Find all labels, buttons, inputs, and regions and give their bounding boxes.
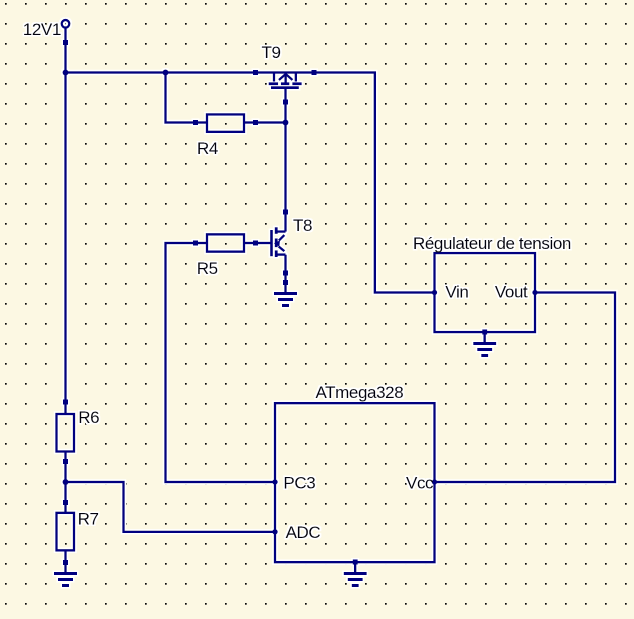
- pin dot Vout: [532, 290, 537, 295]
- transistor T9 bulk contact bar: [281, 82, 290, 85]
- wire ATmega ground stub: [354, 562, 356, 572]
- wire 12V vertical rail: [64, 43, 66, 415]
- transistor T9 bulk arrow: [284, 75, 286, 84]
- pad T8 ground: [283, 280, 288, 285]
- transistor T9 drain stub: [295, 72, 297, 82]
- resistor R7: [57, 513, 75, 551]
- svg-text:PC3: PC3: [283, 474, 315, 493]
- box ATmega328: [275, 403, 435, 562]
- pad T9 source: [253, 70, 258, 75]
- wire regulator ground stub: [483, 331, 485, 342]
- pin dot Vin: [432, 290, 437, 295]
- transistor T9 source stub: [273, 72, 275, 82]
- svg-text:T8: T8: [293, 216, 312, 235]
- pin dot ADC: [272, 529, 277, 534]
- pad T8 source: [283, 271, 288, 276]
- wire regulator Vout to ATmega Vcc: [435, 293, 616, 483]
- transistor T9 gate bar: [271, 86, 299, 89]
- wire divider tap to ATmega ADC: [66, 482, 276, 532]
- wire top 12V rail: [66, 71, 315, 73]
- junction top rail / R4: [163, 70, 169, 76]
- pad T9 drain: [312, 70, 317, 75]
- wire R4 right to gate node: [244, 121, 286, 123]
- transistor T8 bulk arrow: [279, 235, 285, 251]
- svg-text:Vcc: Vcc: [406, 474, 434, 493]
- svg-text:Vin: Vin: [445, 283, 468, 302]
- pad T9 gate: [283, 100, 288, 105]
- svg-text:R7: R7: [78, 509, 99, 528]
- wire R7 to ground: [64, 550, 66, 572]
- svg-text:R4: R4: [197, 139, 218, 158]
- pad regulator ground: [482, 330, 487, 335]
- junction R6/R7 divider tap: [63, 479, 69, 485]
- wire T9 drain to regulator Vin: [314, 73, 435, 293]
- ground under T8: [274, 292, 297, 295]
- pad R7 top: [63, 500, 68, 505]
- transistor T8 source link and pin to ground: [276, 255, 285, 293]
- transistor T8 channel bottom segment: [275, 250, 278, 257]
- transistor T9 source contact bar: [269, 82, 279, 85]
- transistor T8 gate bar: [270, 230, 273, 256]
- svg-text:R6: R6: [78, 408, 99, 427]
- wire T9 gate to T8 drain: [284, 88, 286, 232]
- transistor T8 channel top segment: [275, 227, 278, 234]
- svg-text:12V1: 12V1: [23, 20, 61, 39]
- svg-text:T9: T9: [262, 43, 281, 62]
- pad ATmega ground: [353, 560, 358, 565]
- pad R6 bottom: [63, 459, 68, 464]
- svg-text:Régulateur de tension: Régulateur de tension: [413, 234, 571, 253]
- pad T8 drain: [283, 210, 288, 215]
- svg-text:R5: R5: [197, 259, 218, 278]
- pin dot PC3: [272, 479, 277, 484]
- pin dot Vcc: [432, 479, 437, 484]
- resistor R6: [57, 414, 75, 452]
- resistor R5: [207, 234, 244, 251]
- wire R5 left to ATmega PC3: [166, 243, 276, 482]
- junction R4 / T9 gate node: [283, 120, 289, 126]
- pad R5 left: [193, 241, 198, 246]
- pad R4 left: [193, 120, 198, 125]
- ground under R7: [54, 572, 77, 575]
- wire R5 right to T8 gate: [244, 242, 271, 244]
- ground under regulator: [473, 342, 496, 345]
- pad R4 right: [253, 120, 258, 125]
- svg-text:ADC: ADC: [286, 523, 321, 542]
- wire rail down to R4 left: [166, 73, 208, 123]
- transistor T9 drain contact bar: [292, 82, 301, 85]
- transistor T8 drain link: [276, 230, 285, 232]
- terminal 12V1 pin: [64, 29, 66, 43]
- junction 12V rail / top rail: [63, 70, 69, 76]
- pad R5 right: [253, 241, 258, 246]
- pad R7 bottom: [63, 560, 68, 565]
- pad terminal 12V1: [63, 40, 68, 45]
- resistor R4: [207, 114, 244, 131]
- svg-text:ATmega328: ATmega328: [316, 383, 404, 402]
- terminal circle 12V1: [62, 20, 70, 28]
- pad R6 top: [63, 400, 68, 405]
- wire R6 to R7: [64, 452, 66, 513]
- box regulator U1: [435, 253, 536, 332]
- svg-text:Vout: Vout: [495, 283, 528, 302]
- transistor T8 channel middle segment: [275, 239, 278, 248]
- ground under ATmega: [344, 572, 367, 575]
